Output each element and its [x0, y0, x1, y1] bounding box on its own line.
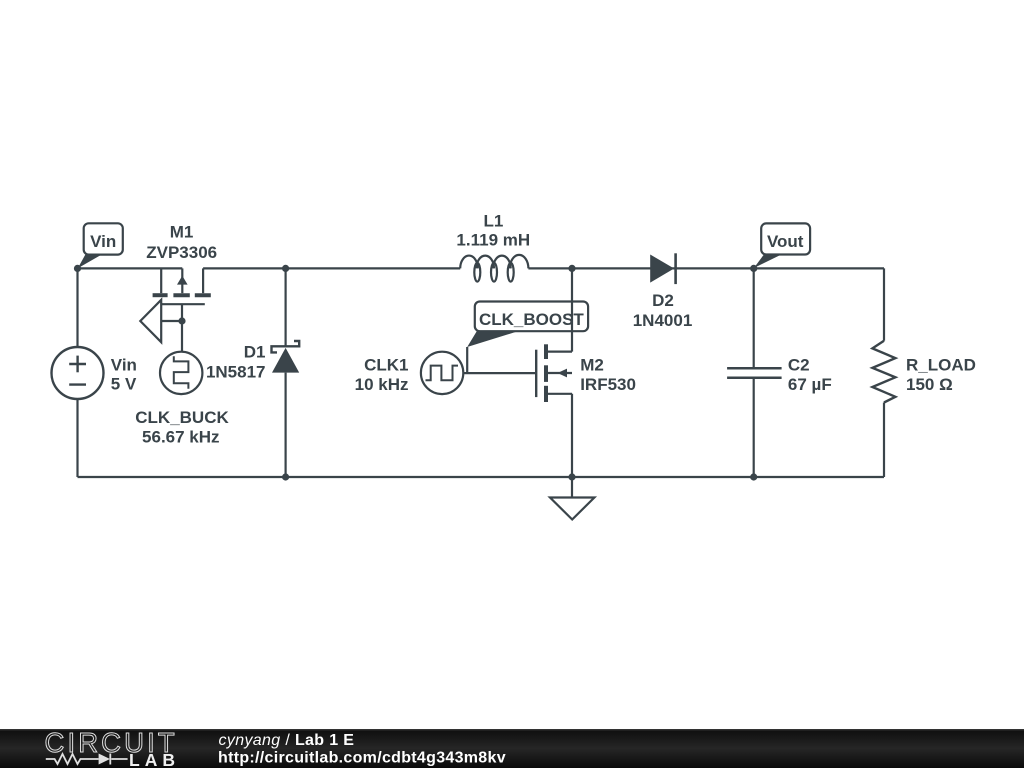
label Vin 5V [111, 355, 137, 393]
svg-text:L1: L1 [483, 212, 503, 231]
wire CLK1 to M2 gate [463, 372, 536, 374]
svg-text:D1: D1 [244, 343, 266, 362]
svg-text:D2: D2 [652, 291, 674, 310]
transistor M2 IRF530 (NMOS) [536, 344, 572, 402]
flag Vout [754, 223, 810, 268]
wire top rail mid (M1 drain to L1) [203, 267, 460, 269]
junction D1 cathode / bottom rail [282, 473, 289, 480]
label L1 1.119 mH [456, 212, 530, 250]
svg-text:LAB: LAB [129, 750, 180, 768]
svg-text:IRF530: IRF530 [580, 375, 636, 394]
transistor M1 ZVP3306 (PMOS) [140, 268, 211, 351]
capacitor C2 [727, 368, 782, 378]
M2 bulk arrow [558, 369, 568, 378]
label M1 ZVP3306 [146, 223, 217, 262]
svg-text:ZVP3306: ZVP3306 [146, 243, 217, 262]
junction C2 / bottom rail [750, 473, 757, 480]
svg-text:1.119 mH: 1.119 mH [456, 230, 530, 249]
svg-text:R_LOAD: R_LOAD [906, 355, 976, 374]
inductor L1 [460, 255, 528, 282]
wire bottom rail [78, 476, 885, 478]
junction M1 gate / CLK_BUCK [178, 317, 185, 324]
node Vout (junction dot) [750, 265, 757, 272]
M1 bulk arrow [177, 276, 188, 285]
wire C2 branch lower [753, 378, 755, 477]
wire D1 branch upper [285, 268, 287, 346]
wire M2 source vertical [571, 394, 573, 477]
label D1 1N5817 [206, 343, 266, 382]
node Vin (junction dot) [74, 265, 81, 272]
junction L1 / M2 drain / D2 anode [568, 265, 575, 272]
flag CLK_BOOST [467, 302, 588, 348]
svg-text:67 µF: 67 µF [788, 375, 832, 394]
svg-text:10 kHz: 10 kHz [355, 375, 409, 394]
wire top rail right (L1 to R_LOAD corner) [528, 267, 884, 269]
svg-text:C2: C2 [788, 355, 810, 374]
junction M2 source / ground [568, 473, 575, 480]
resistor R_LOAD [872, 341, 895, 403]
svg-text:Vin: Vin [111, 355, 137, 374]
label CLK1 10 kHz [355, 355, 409, 394]
svg-text:Vout: Vout [767, 232, 804, 251]
footer bar [0, 729, 1024, 768]
diode D2 1N4001 [650, 253, 675, 284]
label M2 IRF530 [580, 355, 636, 394]
svg-text:CLK1: CLK1 [364, 355, 408, 374]
svg-text:1N5817: 1N5817 [206, 362, 266, 381]
wire D1 branch lower [285, 373, 287, 477]
label R_LOAD 150 Ohm [906, 355, 976, 394]
wire left rail upper [76, 268, 78, 347]
svg-text:150 Ω: 150 Ω [906, 375, 953, 394]
svg-text:CLK_BOOST: CLK_BOOST [479, 310, 584, 329]
svg-text:5 V: 5 V [111, 375, 137, 394]
wire right rail upper [883, 268, 885, 340]
flag Vin [78, 223, 123, 268]
svg-text:http://circuitlab.com/cdbt4g34: http://circuitlab.com/cdbt4g343m8kv [218, 750, 506, 767]
svg-text:CLK_BUCK: CLK_BUCK [135, 408, 229, 427]
svg-text:Vin: Vin [90, 232, 116, 251]
svg-text:cynyang / Lab 1 E: cynyang / Lab 1 E [219, 732, 355, 749]
clock source CLK1 [421, 352, 463, 394]
svg-text:56.67 kHz: 56.67 kHz [142, 427, 220, 446]
label D2 1N4001 [633, 291, 693, 330]
svg-text:M1: M1 [170, 223, 194, 242]
junction D1 anode / top rail [282, 265, 289, 272]
ground [550, 477, 594, 520]
voltage source V1 Vin [52, 347, 104, 399]
svg-text:M2: M2 [580, 355, 604, 374]
wire CLK_BOOST stub [466, 347, 468, 373]
wire C2 branch upper [753, 268, 755, 368]
svg-text:1N4001: 1N4001 [633, 311, 693, 330]
label C2 67uF [788, 355, 832, 394]
label CLK_BUCK 56.67 kHz [135, 408, 229, 446]
wire left rail lower [76, 399, 78, 477]
wire M2 drain vertical [571, 268, 573, 351]
wire top rail left (Vin node to M1 source/bulk) [78, 267, 183, 269]
wire right rail lower [883, 403, 885, 478]
diode D1 1N5817 (Schottky) [272, 341, 300, 373]
clock source CLK_BUCK [160, 352, 202, 394]
footer logo symbol [46, 754, 128, 765]
